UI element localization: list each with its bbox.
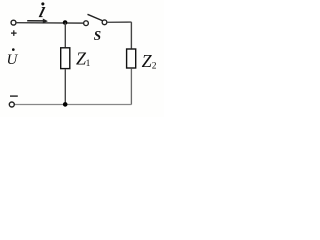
node A (top junction dot) xyxy=(63,20,68,25)
svg-text:1: 1 xyxy=(86,59,91,69)
terminal (top-left open circle) xyxy=(11,20,16,25)
wire (switch to top-right corner) xyxy=(107,21,131,23)
wire (Z1 down to node B) xyxy=(64,69,66,104)
node B (bottom junction dot) xyxy=(63,102,68,107)
label U̇ (phasor source voltage) xyxy=(7,48,19,68)
svg-text:S: S xyxy=(94,28,101,43)
impedance Z2 (box) xyxy=(127,49,136,68)
wire (top-right corner down to Z2) xyxy=(130,22,132,48)
wire (node A down to Z1) xyxy=(64,23,66,48)
switch S xyxy=(84,14,107,25)
label Z2 xyxy=(142,51,157,72)
current arrow i xyxy=(27,19,48,24)
polarity plus sign xyxy=(11,30,17,36)
wire (top: terminal to switch) xyxy=(17,22,84,24)
wire (Z2 down to bottom-right corner) xyxy=(130,68,132,104)
label Z1 xyxy=(76,49,91,70)
wire (bottom return) xyxy=(15,104,132,106)
impedance Z1 (box) xyxy=(61,48,70,69)
polarity minus sign xyxy=(10,95,18,97)
svg-text:U: U xyxy=(7,52,19,68)
label İ (phasor current) xyxy=(36,0,49,22)
svg-text:2: 2 xyxy=(152,62,157,72)
terminal (bottom-left open circle) xyxy=(9,102,14,107)
